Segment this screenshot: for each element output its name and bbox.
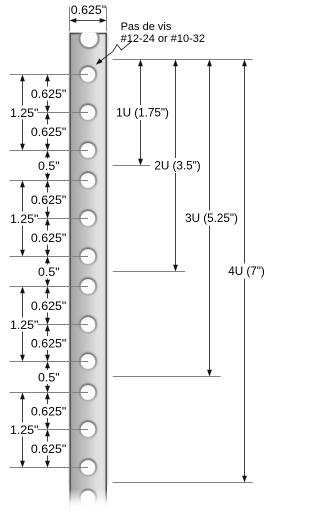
svg-text:1.25": 1.25" bbox=[10, 212, 39, 226]
svg-text:0.625": 0.625" bbox=[31, 442, 66, 456]
top width extension lines bbox=[69, 7, 71, 31]
svg-text:0.625": 0.625" bbox=[71, 3, 106, 17]
svg-text:Pas de vis: Pas de vis bbox=[121, 21, 172, 33]
dim 0.5in gap 3 bbox=[38, 362, 60, 393]
svg-text:0.625": 0.625" bbox=[31, 336, 66, 350]
dim 0.625in group 2 lower bbox=[31, 219, 66, 257]
dim 3U bbox=[185, 60, 238, 377]
mounting hole 8 bbox=[79, 315, 97, 333]
bottom fade of rail bbox=[64, 489, 114, 509]
top width dimension 0.625in bbox=[70, 3, 107, 23]
svg-text:4U (7"): 4U (7") bbox=[228, 265, 265, 278]
svg-text:0.625": 0.625" bbox=[31, 231, 66, 245]
mounting hole 10 bbox=[79, 383, 97, 401]
mounting hole 12 bbox=[79, 458, 97, 476]
svg-text:0.5": 0.5" bbox=[38, 265, 60, 279]
dim 1.25in group 3 bbox=[10, 287, 39, 362]
mounting hole 7 bbox=[79, 277, 97, 295]
svg-text:0.625": 0.625" bbox=[31, 299, 66, 313]
svg-text:0.5": 0.5" bbox=[38, 159, 60, 173]
svg-text:3U (5.25"): 3U (5.25") bbox=[185, 212, 238, 225]
mounting hole 9 bbox=[79, 352, 97, 370]
svg-text:1.25": 1.25" bbox=[10, 423, 39, 437]
mounting hole 6 bbox=[79, 247, 97, 265]
mounting hole 4 bbox=[79, 171, 97, 189]
svg-text:1U (1.75"): 1U (1.75") bbox=[116, 107, 169, 120]
bottom edge notch (half hole) bbox=[79, 489, 97, 507]
dim 0.625in group 1 lower bbox=[31, 113, 66, 151]
dim 0.5in gap 1 bbox=[38, 151, 60, 181]
dim 1U bbox=[116, 60, 169, 166]
svg-text:0.625": 0.625" bbox=[31, 87, 66, 101]
3U boundary tick bbox=[113, 376, 221, 378]
svg-text:0.625": 0.625" bbox=[31, 193, 66, 207]
dim 4U bbox=[228, 60, 265, 483]
dim 0.625in group 1 upper bbox=[31, 75, 66, 113]
hole centre extension lines bbox=[10, 74, 89, 76]
dim 0.625in group 4 upper bbox=[31, 393, 66, 430]
1U boundary tick bbox=[113, 165, 151, 167]
2U boundary tick bbox=[113, 271, 186, 273]
4U boundary tick bbox=[113, 482, 253, 484]
dim 0.5in gap 2 bbox=[38, 257, 60, 287]
mounting hole 1 bbox=[79, 65, 97, 83]
leader arrow to hole 1 bbox=[98, 41, 132, 63]
rack rail body bbox=[64, 28, 114, 512]
svg-text:0.625": 0.625" bbox=[31, 125, 66, 139]
svg-text:2U (3.5"): 2U (3.5") bbox=[154, 159, 200, 172]
svg-text:0.5": 0.5" bbox=[38, 370, 60, 384]
svg-text:#12-24 or #10-32: #12-24 or #10-32 bbox=[121, 33, 205, 45]
rail outer shadow bands bbox=[68, 34, 70, 486]
mounting hole 5 bbox=[79, 209, 97, 227]
dim 1.25in group 1 bbox=[10, 75, 39, 151]
top edge notch (half hole) bbox=[78, 28, 99, 49]
dim 0.625in group 2 upper bbox=[31, 181, 66, 219]
top U reference line bbox=[113, 59, 253, 61]
dim 0.625in group 3 upper bbox=[31, 287, 66, 325]
dim 0.625in group 4 lower bbox=[31, 430, 66, 468]
svg-text:1.25": 1.25" bbox=[10, 106, 39, 120]
mounting hole 11 bbox=[79, 420, 97, 438]
mounting hole 2 bbox=[79, 103, 97, 121]
svg-text:1.25": 1.25" bbox=[10, 318, 39, 332]
dim 0.625in group 3 lower bbox=[31, 325, 66, 362]
dim 2U bbox=[154, 60, 200, 272]
dim 1.25in group 4 bbox=[10, 393, 39, 468]
mounting hole 3 bbox=[79, 141, 97, 159]
dim 1.25in group 2 bbox=[10, 181, 39, 257]
svg-text:0.625": 0.625" bbox=[31, 404, 66, 418]
